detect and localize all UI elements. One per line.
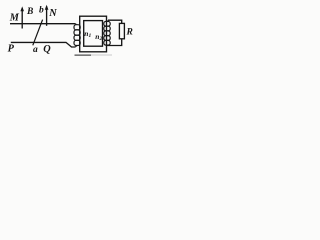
wire top rail MN xyxy=(10,23,76,25)
primary coil n1 loops xyxy=(74,24,80,47)
field arrow B1 xyxy=(21,8,23,29)
transformer core inner xyxy=(84,21,103,47)
wire secondary top to R xyxy=(108,20,122,23)
svg-text:Q: Q xyxy=(43,44,51,55)
rod ab xyxy=(33,20,43,46)
svg-text:n1: n1 xyxy=(84,29,91,39)
svg-text:N: N xyxy=(48,8,57,19)
resistor R body xyxy=(119,23,124,38)
secondary coil n2 loops xyxy=(104,20,110,46)
transformer core outer xyxy=(80,16,107,52)
wire bottom rail PQ xyxy=(11,42,76,47)
arrowhead B1 xyxy=(20,6,24,11)
svg-text:R: R xyxy=(126,28,133,38)
svg-text:n2: n2 xyxy=(95,32,102,42)
svg-text:a: a xyxy=(33,45,38,55)
svg-text:P: P xyxy=(8,44,15,55)
wire secondary bottom to R xyxy=(107,39,122,46)
arrowhead B2 xyxy=(45,5,49,10)
svg-text:M: M xyxy=(9,13,20,24)
field arrow B2 xyxy=(46,6,48,25)
svg-text:B: B xyxy=(26,7,33,17)
faint rule artifact xyxy=(75,54,92,56)
svg-text:b: b xyxy=(39,6,44,16)
